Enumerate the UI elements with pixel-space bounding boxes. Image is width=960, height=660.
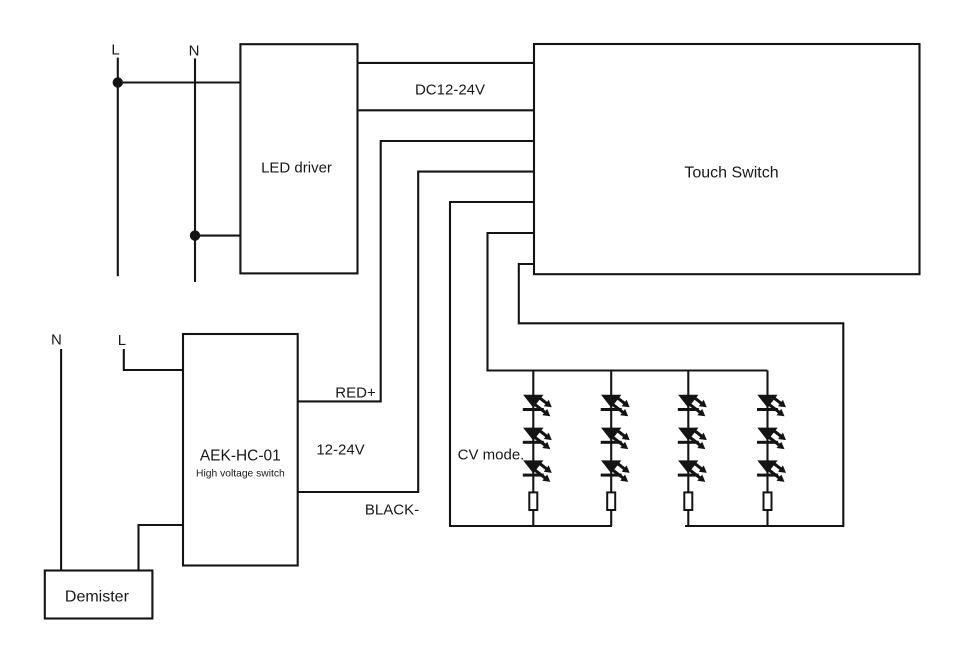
svg-text:LED driver: LED driver — [261, 160, 332, 177]
svg-text:BLACK-: BLACK- — [365, 502, 419, 519]
svg-text:Demister: Demister — [65, 589, 130, 606]
svg-text:DC12-24V: DC12-24V — [415, 81, 485, 98]
svg-text:High voltage switch: High voltage switch — [196, 469, 285, 480]
svg-text:N: N — [51, 332, 62, 349]
svg-text:12-24V: 12-24V — [316, 442, 364, 459]
svg-text:CV mode.: CV mode. — [458, 447, 525, 464]
svg-text:L: L — [118, 332, 126, 349]
svg-text:RED+: RED+ — [335, 385, 376, 402]
svg-text:Touch Switch: Touch Switch — [684, 165, 778, 182]
svg-text:AEK-HC-01: AEK-HC-01 — [200, 448, 281, 465]
svg-text:L: L — [111, 42, 119, 59]
svg-text:N: N — [189, 43, 200, 60]
